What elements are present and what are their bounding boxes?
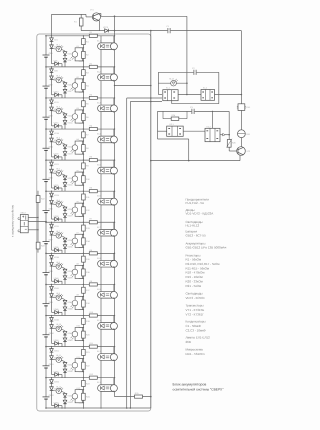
- svg-text:VD54: VD54: [67, 370, 73, 373]
- wire enclosure-right vertical net: [150, 31, 152, 408]
- diode VD58: [63, 394, 67, 398]
- wire charger bus: [37, 191, 39, 253]
- optocoupler U4: [79, 140, 84, 142]
- resistor series R cell 6: [89, 190, 97, 193]
- wire relay2 bottom: [158, 138, 189, 140]
- lamp-relay EL10: [100, 316, 102, 323]
- cell stage 9 top wire: [46, 283, 115, 285]
- diode VD57: [50, 387, 54, 391]
- LED HL5 (opto emitter): [52, 173, 66, 176]
- wire collector to relay net: [100, 12, 101, 14]
- LED HL2 (opto emitter): [52, 80, 66, 83]
- wire relay net vertical: [186, 16, 188, 94]
- diode VD24: [63, 183, 67, 187]
- transistor VT2: [237, 147, 246, 156]
- resistor series R cell 8: [89, 252, 97, 255]
- wire relay2 drop to emitter rail: [188, 139, 190, 161]
- battery GB9: [45, 304, 47, 305]
- diode VD32: [50, 231, 54, 235]
- cell stage 11 top wire: [46, 346, 115, 348]
- wire to VT2 base: [228, 147, 230, 151]
- diode VD7: [50, 76, 54, 80]
- optocoupler U12: [79, 389, 84, 391]
- svg-text:VD25: VD25: [54, 184, 60, 187]
- optocoupler U6: [79, 202, 84, 204]
- diode VD21: [50, 162, 54, 166]
- optocoupler U9: [79, 295, 84, 297]
- svg-text:Лампы ЕЛ1-ЕЛ12: Лампы ЕЛ1-ЕЛ12: [186, 336, 211, 340]
- svg-text:GB1-GB12 LiPo 13В 5000мАч: GB1-GB12 LiPo 13В 5000мАч: [186, 246, 227, 250]
- resistor R25: [135, 395, 143, 398]
- wire second diode column cell 8: [64, 269, 66, 285]
- cell stage 8 top wire: [46, 252, 115, 254]
- diode VD34: [63, 245, 67, 249]
- cell stage 6 top wire: [46, 190, 115, 192]
- svg-text:GB13 - 6СТ-55: GB13 - 6СТ-55: [186, 234, 207, 238]
- battery GB10: [45, 335, 47, 336]
- diode VD41: [50, 286, 54, 290]
- wire second diode column cell 4: [64, 144, 66, 160]
- wire second diode column cell 12: [64, 393, 66, 409]
- diode VD39: [63, 276, 67, 280]
- svg-text:GB13: GB13: [21, 211, 27, 214]
- wire diode column cell 5: [51, 160, 53, 188]
- resistor R15: [82, 256, 86, 262]
- diode VD8: [63, 83, 67, 87]
- wire relay1 output: [215, 94, 242, 96]
- lamp-relay EL12: [100, 378, 102, 385]
- diode VD10 bottom: [52, 94, 63, 96]
- resistor R1: [80, 14, 82, 30]
- diode VD28: [63, 207, 67, 211]
- svg-text:VD19: VD19: [67, 152, 73, 155]
- diode VD33: [63, 238, 67, 242]
- LED HL10 (opto emitter): [52, 328, 66, 331]
- enclosure of battery block (dash-dot boundary): [37, 34, 151, 411]
- resistor R1: [82, 39, 86, 45]
- wire battery box taps: [28, 217, 38, 219]
- svg-text:R1 - 56кОм: R1 - 56кОм: [186, 258, 202, 262]
- diode VD73: [105, 29, 109, 33]
- resistor R21: [82, 349, 86, 355]
- meter PA1: [238, 130, 246, 138]
- diode VD30 bottom: [52, 218, 63, 220]
- svg-text:VD21: VD21: [54, 163, 60, 166]
- svg-text:VD46: VD46: [54, 318, 60, 321]
- diode VD50 bottom: [52, 342, 63, 344]
- wire relay1 top rail: [158, 71, 218, 73]
- resistor R3: [82, 70, 86, 76]
- svg-text:VD16: VD16: [54, 132, 60, 135]
- lamp-relay EL2: [100, 67, 102, 74]
- lamp-relay EL1: [100, 36, 102, 43]
- svg-text:VD39: VD39: [67, 277, 73, 280]
- diode VD56: [50, 380, 54, 384]
- lamp-relay EL6: [100, 191, 102, 198]
- LED HL3 (opto emitter): [52, 111, 66, 114]
- resistor R11: [82, 194, 86, 200]
- optocoupler U11: [79, 358, 84, 360]
- resistor series R cell 11: [89, 345, 97, 348]
- diode VD12: [50, 107, 54, 111]
- optocoupler U8: [79, 264, 84, 266]
- wire top feed: [52, 13, 87, 15]
- svg-text:VD15: VD15: [54, 122, 60, 125]
- svg-text:Блок аккумуляторов: Блок аккумуляторов: [173, 383, 207, 387]
- svg-text:C1 - 50мкФ: C1 - 50мкФ: [186, 324, 202, 328]
- diode VD25 bottom: [52, 187, 63, 189]
- svg-text:VD44: VD44: [67, 308, 73, 311]
- svg-text:DD1 - 561ЛЕ1: DD1 - 561ЛЕ1: [186, 352, 206, 356]
- diode VD3: [63, 52, 67, 56]
- diode VD44: [63, 307, 67, 311]
- lamp-relay EL4: [100, 129, 102, 136]
- resistor R2: [82, 51, 86, 58]
- resistor R10: [82, 176, 86, 183]
- resistor R23: [36, 242, 40, 249]
- wire LED row: [158, 82, 187, 84]
- wire diode column cell 3: [51, 98, 53, 126]
- svg-text:C2,C3 - 10мкФ: C2,C3 - 10мкФ: [186, 329, 207, 333]
- resistor series R cell 1: [89, 34, 97, 37]
- wire second diode column cell 10: [64, 331, 66, 347]
- cell stage 3 top wire: [46, 97, 115, 99]
- diode VD40 bottom: [52, 280, 63, 282]
- diode VD45 bottom: [52, 311, 63, 313]
- svg-text:VD60: VD60: [54, 401, 60, 404]
- capacitor C3: [191, 111, 194, 113]
- wire relay2 link: [183, 130, 205, 132]
- diode VD18: [63, 145, 67, 149]
- diode VD54: [63, 369, 67, 373]
- svg-text:VD31: VD31: [54, 225, 60, 228]
- diode VD47: [50, 325, 54, 329]
- diode VD15 bottom: [52, 125, 63, 127]
- cell stage 10 top wire: [46, 315, 115, 317]
- LED HL4 (opto emitter): [52, 142, 66, 145]
- svg-text:VD24: VD24: [67, 183, 73, 186]
- diode VD9: [63, 89, 67, 93]
- wire diode column cell 12: [51, 378, 53, 406]
- svg-text:HL1-HL12: HL1-HL12: [186, 224, 200, 228]
- cell stage 12 top wire: [46, 377, 115, 379]
- diode VD23: [63, 176, 67, 180]
- resistor R9: [82, 163, 86, 169]
- svg-text:VD50: VD50: [54, 339, 60, 342]
- wire vertical tap bus B: [129, 102, 131, 409]
- relay K2.2: [205, 128, 220, 141]
- svg-text:VD73: VD73: [103, 26, 109, 29]
- wire second diode column cell 7: [64, 237, 66, 253]
- wire emitter rail: [99, 21, 101, 31]
- svg-text:VD10: VD10: [54, 91, 60, 94]
- wire relay2 top rail: [158, 110, 230, 112]
- wire right drive column: [228, 111, 230, 139]
- resistor series R cell 9: [89, 283, 97, 286]
- resistor R24: [162, 111, 164, 118]
- LED HL8 (opto emitter): [52, 266, 66, 269]
- svg-text:VD41: VD41: [54, 287, 60, 290]
- diode VD51: [50, 349, 54, 353]
- wire relay1 bottom: [171, 100, 173, 104]
- resistor series R cell 12: [89, 376, 97, 379]
- svg-text:VT2 - КТ361Г: VT2 - КТ361Г: [186, 313, 205, 317]
- wire resistor column cell 11: [82, 347, 84, 378]
- resistor R17: [82, 287, 86, 293]
- resistor R7: [82, 132, 86, 138]
- wire ladder bottom lamp tail: [115, 396, 151, 398]
- LED HL11 (opto emitter): [52, 359, 66, 362]
- resistor R16: [82, 269, 86, 276]
- wire resistor column cell 10: [82, 316, 84, 347]
- wire second diode column cell 1: [64, 51, 66, 67]
- diode VD31: [50, 224, 54, 228]
- resistor series R cell 5: [89, 159, 97, 162]
- wire diode column cell 6: [51, 191, 53, 219]
- battery GB4: [45, 149, 47, 150]
- cell stage 7 top wire: [46, 221, 115, 223]
- resistor R12: [82, 207, 86, 214]
- battery GB5: [45, 180, 47, 181]
- relay K2.1: [158, 130, 167, 132]
- diode VD35 bottom: [52, 249, 63, 251]
- capacitor C1: [167, 30, 170, 32]
- wire right lamp bus: [114, 16, 116, 396]
- resistor R23: [82, 380, 86, 386]
- svg-text:R19 - 10кОм: R19 - 10кОм: [186, 275, 203, 279]
- wire diode column cell 7: [51, 222, 53, 250]
- battery GB2: [45, 86, 47, 87]
- svg-text:VD36: VD36: [54, 256, 60, 259]
- diode VD20 bottom: [52, 156, 63, 158]
- lamp-relay EL3: [100, 98, 102, 105]
- svg-text:VD26: VD26: [54, 194, 60, 197]
- diode VD55 bottom: [52, 373, 63, 375]
- resistor R22: [36, 196, 40, 203]
- resistor R26 (drive): [227, 140, 231, 148]
- svg-text:VD20: VD20: [54, 153, 60, 156]
- resistor series R cell 10: [89, 314, 97, 317]
- cell stage 5 top wire: [46, 159, 115, 161]
- diode VD60 bottom: [52, 405, 63, 407]
- LED HL6 (opto emitter): [52, 204, 66, 207]
- diode VD49: [63, 338, 67, 342]
- cell stage 2 top wire: [46, 66, 115, 68]
- resistor R18: [82, 300, 86, 307]
- diode VD43: [63, 300, 67, 304]
- optocoupler U7: [79, 233, 84, 235]
- LED HL13: [171, 80, 177, 86]
- wire relay2 left drop: [157, 111, 159, 139]
- battery GB6: [45, 211, 47, 212]
- lamp-relay EL7: [100, 222, 102, 229]
- svg-text:VD55: VD55: [54, 370, 60, 373]
- terminal battery box GB: [20, 215, 28, 233]
- svg-text:VD30: VD30: [54, 215, 60, 218]
- diode VD38: [63, 269, 67, 273]
- wire resistor column cell 1: [82, 36, 84, 67]
- svg-text:VD1-VD72 - КД522А: VD1-VD72 - КД522А: [186, 212, 214, 216]
- battery GB8: [45, 273, 47, 274]
- wire diode column cell 11: [51, 347, 53, 375]
- wire second diode column cell 11: [64, 362, 66, 378]
- svg-text:R18 - 470кОм: R18 - 470кОм: [186, 271, 205, 275]
- svg-text:FU1,FU2 - 5А: FU1,FU2 - 5А: [186, 201, 205, 205]
- wire second diode column cell 9: [64, 300, 66, 316]
- wire vertical tap bus A: [126, 98, 128, 408]
- svg-text:VD59: VD59: [67, 401, 73, 404]
- diode VD48: [63, 331, 67, 335]
- wire resistor column cell 12: [82, 378, 84, 409]
- resistor R22: [82, 362, 86, 369]
- optocoupler U1: [79, 47, 84, 49]
- svg-text:VD40: VD40: [54, 277, 60, 280]
- battery GB3: [45, 118, 47, 119]
- svg-text:VD35: VD35: [54, 246, 60, 249]
- svg-text:26В: 26В: [186, 340, 191, 344]
- lamp-relay EL9: [100, 284, 102, 291]
- diode VD4: [63, 58, 67, 62]
- resistor R14: [82, 238, 86, 245]
- svg-text:к зарядному устройству: к зарядному устройству: [11, 204, 15, 237]
- diode VD19: [63, 152, 67, 156]
- diode VD17: [50, 138, 54, 142]
- wire tap B: [130, 101, 162, 103]
- diode VD37: [50, 262, 54, 266]
- wire second diode column cell 2: [64, 82, 66, 98]
- svg-text:Микросхема: Микросхема: [186, 348, 204, 352]
- wire diode column cell 4: [51, 129, 53, 157]
- transistor VT1: [85, 14, 87, 17]
- battery GB12: [45, 397, 47, 398]
- wire lamp-bus to relay net: [115, 85, 151, 87]
- battery GB1: [45, 55, 47, 56]
- svg-text:VD51: VD51: [54, 349, 60, 352]
- terminal hooks: [18, 218, 20, 232]
- diode VD36: [50, 255, 54, 259]
- relay K1.2: [201, 90, 215, 101]
- lamp-relay EL11: [100, 347, 102, 354]
- LED HL12 (opto emitter): [52, 390, 66, 393]
- wire second diode column cell 3: [64, 113, 66, 129]
- resistor R6: [82, 114, 86, 121]
- wire second diode column cell 5: [64, 175, 66, 191]
- svg-text:Светодиоды: Светодиоды: [186, 292, 203, 296]
- svg-text:R2-R10, R16,R17 - 5кОм: R2-R10, R16,R17 - 5кОм: [186, 262, 220, 266]
- fuse FU1: [238, 104, 245, 111]
- wire resistor column cell 7: [82, 222, 84, 253]
- diode VD29: [63, 214, 67, 218]
- wire resistor column cell 8: [82, 253, 84, 284]
- resistor R24: [82, 393, 86, 400]
- wire diode column cell 10: [51, 316, 53, 344]
- svg-text:Конденсаторы: Конденсаторы: [186, 320, 206, 324]
- resistor R8: [82, 145, 86, 152]
- svg-text:R21 - 5кОм: R21 - 5кОм: [186, 284, 202, 288]
- svg-text:VD45: VD45: [54, 308, 60, 311]
- wire VT2 emitter rail: [239, 155, 241, 161]
- svg-text:VT1 - КТ315Б: VT1 - КТ315Б: [186, 308, 205, 312]
- wire resistor column cell 3: [82, 98, 84, 129]
- wire relay1 left drop: [157, 72, 159, 94]
- wire right feed: [240, 31, 242, 95]
- wire diode column cell 2: [51, 67, 53, 95]
- resistor R20: [82, 331, 86, 338]
- wire diode column cell 8: [51, 253, 53, 281]
- optocoupler U5: [79, 171, 84, 173]
- svg-text:VD34: VD34: [67, 246, 73, 249]
- LED HL1 (opto emitter): [52, 49, 66, 52]
- lamp-relay EL5: [100, 160, 102, 167]
- wire resistor column cell 5: [82, 160, 84, 191]
- wire resistor column cell 6: [82, 191, 84, 222]
- diode VD27: [50, 200, 54, 204]
- wire resistor column cell 9: [82, 284, 84, 315]
- diode VD13: [63, 114, 67, 118]
- diode VD46: [50, 318, 54, 322]
- wire left battery bus: [45, 36, 47, 408]
- wire relay1 right edge: [218, 72, 220, 103]
- wire tap A: [127, 97, 162, 99]
- resistor R4: [82, 82, 86, 89]
- diode VD42: [50, 294, 54, 298]
- diode VD11: [50, 100, 54, 104]
- diode VD52: [50, 356, 54, 360]
- resistor R19: [82, 318, 86, 324]
- wire resistor column cell 4: [82, 129, 84, 160]
- LED HL7 (opto emitter): [52, 235, 66, 238]
- svg-text:осветительной системы "СВЕРХ: осветительной системы "СВЕРХ": [173, 387, 225, 391]
- optocoupler U3: [79, 109, 84, 111]
- svg-text:R20 - 33кОм: R20 - 33кОм: [186, 280, 203, 284]
- svg-text:Транзисторы: Транзисторы: [186, 304, 204, 308]
- wire bottom rail: [46, 407, 151, 409]
- diode VD14: [63, 120, 67, 124]
- diode VD6: [50, 69, 54, 73]
- diode VD53: [63, 363, 67, 367]
- capacitor C2: [193, 72, 196, 74]
- svg-text:VD29: VD29: [67, 215, 73, 218]
- resistor R5: [82, 101, 86, 107]
- resistor series R cell 3: [89, 96, 97, 99]
- battery GB7: [45, 242, 47, 243]
- wire fuse to meter: [240, 110, 242, 129]
- optocoupler U10: [79, 327, 84, 329]
- wire diode column cell 9: [51, 284, 53, 312]
- diode VD16: [50, 131, 54, 135]
- diode VD22: [50, 169, 54, 173]
- wire meter to VT2: [240, 138, 242, 147]
- resistor series R cell 2: [89, 65, 97, 68]
- wire resistor column cell 2: [82, 67, 84, 98]
- optocoupler U2: [79, 78, 84, 80]
- wire relay2 output with diode: [220, 134, 229, 136]
- cell stage 1 top wire: [46, 35, 115, 37]
- wire second diode column cell 6: [64, 206, 66, 222]
- diode VD2: [50, 45, 54, 49]
- resistor series R cell 4: [89, 127, 97, 130]
- battery GB11: [45, 366, 47, 367]
- diode VD5 bottom: [52, 63, 63, 65]
- LED HL9 (opto emitter): [52, 297, 66, 300]
- cell stage 4 top wire: [46, 128, 115, 130]
- diode VD59: [63, 400, 67, 404]
- wire relay2 feed: [212, 111, 214, 128]
- diode VD1: [50, 38, 54, 42]
- lamp-relay EL8: [100, 253, 102, 260]
- svg-text:VD73 - КС504: VD73 - КС504: [186, 296, 205, 300]
- wire diode column cell 1: [51, 36, 53, 64]
